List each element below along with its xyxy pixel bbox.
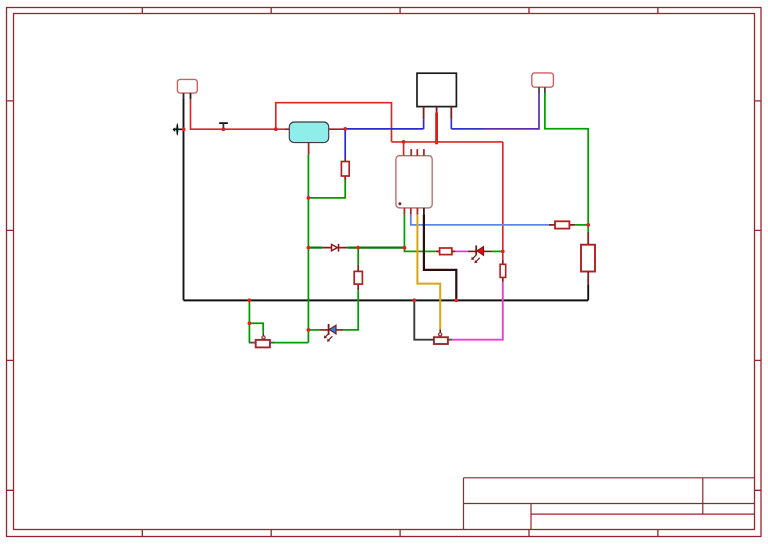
wire: blue node to U2 pin1: [345, 128, 423, 130]
wire: purple horizontal to J2 pin1: [483, 93, 539, 129]
wire: magenta R2 to LED1: [455, 250, 467, 252]
node L R6 / green riser: [586, 223, 590, 227]
diode D1: [322, 244, 347, 252]
wire: green pot RV1 to trunk: [275, 342, 308, 344]
connector J2: [532, 73, 554, 93]
wire: red long horizontal y=142: [392, 141, 503, 143]
IC U1: [396, 149, 432, 214]
wire: blue horizontal U2 pin3 to mid: [451, 128, 483, 130]
potentiometer RV1: [249, 334, 275, 348]
resistor R4: [354, 265, 362, 290]
resistor R2: [436, 248, 456, 255]
wire: green R4 down to LED2 row: [344, 290, 358, 330]
wire: green vertical trunk x=308: [307, 155, 309, 343]
wire: green drop to R4: [357, 248, 359, 265]
module M1 (cyan box): [284, 122, 345, 155]
node B rail/test point: [222, 127, 226, 131]
node G trunk / R1 return: [307, 196, 311, 200]
wire: dark red to R5: [587, 232, 589, 245]
wire: green R1 to left: [308, 180, 345, 198]
node M trunk / LED2: [307, 328, 311, 332]
wire: blue U2 pin3 drop: [450, 120, 452, 129]
junction dots: [182, 127, 590, 332]
wire: red U2 middle pin: [436, 107, 438, 113]
wire: dark green diode row left: [308, 247, 322, 249]
resistor R5: [581, 245, 595, 285]
node A rail/black cross: [182, 127, 186, 131]
wire: yellow U1 pin3: [417, 215, 440, 330]
wire: green LED1 to red node: [492, 250, 503, 252]
wire: red U1 top pin to rail: [403, 142, 405, 156]
resistor R3: [500, 260, 506, 282]
wire: green node stub down: [587, 225, 589, 232]
wire: blue U2 pin1 drop: [423, 120, 425, 130]
node I diode row / R4: [356, 246, 360, 250]
test point TP1: [220, 123, 227, 131]
node J diode row / U1 pin1: [403, 246, 407, 250]
wire: black bus right riser to resistor R5: [587, 284, 589, 300]
LED D3 blue: [319, 324, 344, 341]
resistor R1: [341, 158, 349, 180]
potentiometer RV2: [434, 329, 452, 344]
wire: green R6 to node: [575, 224, 588, 226]
wire: black bus to pot RV2: [414, 300, 434, 339]
wire: dark green diode row right: [347, 247, 404, 249]
node N bus / RV1 drop: [248, 298, 252, 302]
node F long rail / U2 mid pin: [435, 140, 439, 144]
node O RV1 wiper tap: [248, 321, 252, 325]
wire: dark brown U1 pin4: [424, 215, 456, 301]
wire: green bus drop x=249.4: [248, 300, 250, 342]
wire: red from J1 pin2 down then right as rail: [191, 99, 285, 129]
wire: light blue U1 pin2: [411, 215, 549, 225]
node K LED1 / red riser: [501, 250, 505, 254]
LED D2 red: [468, 245, 492, 262]
node C rail/top loop riser: [274, 127, 278, 131]
wire: green step to LED row: [405, 248, 436, 252]
title block: [464, 478, 755, 530]
wire: green LED2 to trunk: [308, 329, 319, 331]
wire: magenta R3 to pot RV2: [452, 282, 503, 340]
wire: blue drop to R1: [344, 129, 346, 158]
node P bus / RV2 black drop: [412, 298, 416, 302]
node E long rail / U1 top pin: [402, 140, 406, 144]
wire: red vertical x=502.8: [502, 142, 504, 260]
node Q bus / brown wire: [454, 298, 458, 302]
node D module out / R1: [343, 127, 347, 131]
wire: green U1 pin1 down: [403, 215, 405, 248]
wire: ground bus black horizontal: [184, 299, 589, 301]
wire: green J2 pin2 path: [545, 93, 588, 225]
microphone MIC1: [173, 123, 186, 136]
wire: green wiper loop pot RV1: [249, 323, 263, 333]
connector J1: [177, 79, 197, 99]
resistor R6: [549, 221, 575, 228]
black box U2: [417, 73, 456, 120]
wire: red riser and top loop: [276, 103, 392, 142]
wire: black from J1 pin1 down to ground bus: [183, 99, 185, 300]
node H trunk / diode row: [307, 246, 311, 250]
